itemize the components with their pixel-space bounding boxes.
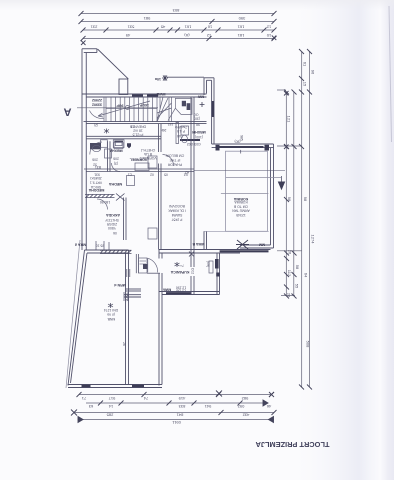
terrace bottom line	[204, 230, 269, 232]
svg-text:112: 112	[287, 270, 292, 277]
svg-text:285: 285	[106, 413, 113, 418]
svg-text:(100): (100)	[195, 135, 203, 139]
door jamb block	[139, 258, 147, 273]
wall top-left edge	[82, 48, 97, 50]
shield symbol kitchen	[127, 143, 131, 148]
svg-text:161: 161	[184, 25, 191, 30]
svg-text:985: 985	[240, 135, 244, 141]
dim line T1	[81, 13, 274, 15]
svg-text:55: 55	[295, 284, 300, 289]
svg-text:CM TO B: CM TO B	[233, 204, 248, 208]
lintel hatch	[86, 194, 125, 201]
svg-text:803: 803	[172, 8, 179, 13]
window bath east vertical	[215, 259, 219, 269]
svg-text:16UP: 16UP	[139, 103, 149, 107]
stair landing line	[106, 108, 157, 110]
stair treads	[110, 97, 112, 122]
svg-text:AKKIDA: AKKIDA	[106, 213, 120, 217]
dim line R4	[293, 92, 295, 296]
wc2 fixture	[181, 126, 189, 135]
door jamb dark mark	[143, 264, 148, 269]
svg-text:64: 64	[304, 273, 309, 278]
svg-text:26h: 26h	[161, 128, 167, 132]
svg-text:(09): (09)	[206, 261, 210, 267]
svg-text:161: 161	[237, 25, 244, 30]
wall kitchen right	[158, 124, 160, 152]
svg-text:206: 206	[92, 158, 98, 162]
svg-text:917: 917	[108, 396, 115, 401]
stair walk line	[98, 101, 150, 117]
svg-text:45: 45	[160, 25, 165, 30]
star garage label	[108, 303, 113, 308]
svg-text:390: 390	[238, 16, 245, 21]
section marker A left	[64, 106, 159, 118]
wc ne fixtures dark	[182, 101, 186, 107]
wall garage top	[85, 249, 129, 251]
svg-text:CHETH-J: CHETH-J	[140, 148, 155, 152]
svg-text:52: 52	[93, 163, 97, 167]
svg-text:SAMNI: SAMNI	[172, 213, 183, 217]
window bottom wall 1	[82, 385, 91, 387]
svg-text:(30): (30)	[194, 117, 200, 121]
wall left (double)	[81, 49, 83, 250]
window sill inner room	[180, 139, 200, 141]
svg-text:I DL KIMAK: I DL KIMAK	[167, 209, 185, 213]
svg-text:pi na: pi na	[107, 313, 114, 317]
svg-text:12345: 12345	[236, 213, 246, 217]
svg-text:B UA: B UA	[143, 152, 152, 156]
svg-text:16: 16	[207, 25, 212, 30]
dim line B2	[86, 402, 267, 404]
svg-text:MMA B: MMA B	[192, 242, 204, 246]
wall center vertical	[190, 97, 192, 268]
X void symbol	[236, 240, 249, 249]
svg-text:P 2457: P 2457	[172, 218, 183, 222]
svg-text:231: 231	[90, 25, 97, 30]
svg-text:A: A	[64, 106, 72, 118]
wall terrace-south stub	[203, 231, 205, 249]
svg-text:C2: C2	[131, 124, 135, 128]
svg-text:MEDHA: MEDHA	[109, 182, 123, 186]
svg-text:58: 58	[295, 265, 300, 270]
wall wc right	[107, 141, 109, 171]
svg-text:49: 49	[125, 33, 130, 38]
hall niche wall	[135, 254, 137, 273]
wall NE top	[204, 77, 214, 79]
svg-text:PHAZOR: PHAZOR	[167, 163, 182, 167]
wall middle wing horizontal (double)	[84, 168, 194, 170]
svg-text:06: 06	[113, 231, 117, 235]
svg-text:G2: G2	[184, 172, 189, 176]
svg-text:MW: MW	[197, 95, 204, 99]
window north wall sill 1	[132, 95, 143, 97]
site boundary thin line	[66, 240, 80, 388]
svg-text:33902: 33902	[92, 103, 102, 107]
tick marks of top dims	[79, 11, 277, 45]
star kitchen top	[104, 129, 109, 134]
counter dark bits	[114, 141, 123, 142]
svg-text:BOGOVNI: BOGOVNI	[169, 204, 185, 208]
terrace outline	[226, 151, 268, 231]
svg-text:MWk: MWk	[163, 288, 171, 292]
svg-text:63: 63	[88, 404, 93, 409]
svg-text:OC: OC	[193, 113, 199, 117]
ext line south wing	[277, 250, 302, 252]
kitchen counter rects	[101, 140, 108, 148]
svg-text:7+: 7+	[180, 263, 184, 267]
svg-text:C02: C02	[191, 268, 195, 274]
wall hall step	[126, 288, 142, 290]
svg-text:092: 092	[237, 404, 244, 409]
svg-text:MRN d: MRN d	[114, 283, 125, 287]
wall below stairs (double)	[84, 122, 207, 124]
svg-text:MRA d: MRA d	[75, 243, 86, 247]
ext line wing bottom	[281, 295, 295, 297]
svg-text:05: 05	[164, 172, 168, 176]
svg-text:G03: G03	[194, 142, 201, 146]
shower box	[148, 156, 157, 168]
wall east upper	[213, 78, 215, 144]
wall kitchen divider (double)	[86, 135, 161, 137]
lintel X mark	[116, 194, 125, 201]
svg-text:CM BELOW: CM BELOW	[165, 154, 184, 158]
svg-text:26: 26	[287, 293, 292, 298]
dim line T2	[81, 21, 274, 23]
svg-text:C1: C1	[128, 172, 132, 176]
star bath label	[175, 262, 180, 267]
svg-text:ZIDSR: ZIDSR	[106, 222, 117, 226]
svg-text:ARMU TAN: ARMU TAN	[232, 209, 250, 213]
window living south (dark sill)	[220, 250, 269, 252]
hall under-door line	[147, 272, 160, 274]
svg-text:26: 26	[122, 342, 126, 346]
svg-text:10: 10	[266, 33, 271, 38]
svg-text:508: 508	[306, 341, 311, 348]
window east upper dark	[212, 101, 214, 117]
svg-text:12: 12	[206, 33, 211, 38]
svg-text:981: 981	[143, 16, 150, 21]
svg-text:TLOCRT PRIZEMLJA: TLOCRT PRIZEMLJA	[255, 440, 330, 449]
wall garage west slant	[68, 250, 85, 386]
window south wing	[166, 292, 192, 294]
stair wall left	[103, 97, 105, 122]
svg-text:152: 152	[168, 122, 174, 126]
top dim labels (upside down)	[90, 8, 271, 38]
svg-text:0911: 0911	[171, 420, 180, 425]
window bottom wall 2	[132, 385, 144, 387]
svg-text:96: 96	[311, 70, 316, 75]
fixture middle	[127, 176, 135, 186]
svg-text:61: 61	[303, 62, 308, 67]
door arc wc	[90, 142, 102, 155]
top edge light tint	[0, 0, 394, 10]
svg-text:833: 833	[178, 404, 185, 409]
window living top (dark sill)	[220, 146, 264, 148]
wall bath east	[216, 253, 218, 295]
svg-text:MNB.: MNB.	[107, 317, 116, 321]
wall garage east	[125, 253, 127, 385]
fixture top small	[105, 149, 112, 158]
wall hall east / bath west	[158, 250, 160, 259]
fixture hall	[148, 228, 157, 239]
svg-text:MEDDHA: MEDDHA	[88, 188, 104, 192]
inset room NE	[168, 98, 192, 120]
svg-text:206: 206	[113, 157, 119, 161]
wall south of living (double)	[159, 249, 271, 251]
dim line T4	[83, 38, 274, 40]
garage top mini ticks	[96, 241, 130, 301]
dim line T3	[83, 29, 274, 31]
svg-text:TA6: TA6	[177, 134, 183, 138]
washing machine	[114, 143, 123, 149]
door arc store room	[163, 155, 174, 166]
plus symbol upper	[200, 102, 205, 107]
door arc middle wing	[112, 163, 121, 172]
wall east main	[273, 144, 275, 248]
stair wall right	[168, 97, 170, 122]
dim line B3	[74, 412, 274, 414]
svg-text:MM: MM	[259, 243, 265, 247]
svg-text:P 4.5: P 4.5	[177, 129, 185, 133]
svg-text:IF THE: IF THE	[169, 158, 180, 162]
dim line R3	[285, 92, 287, 296]
wall NE jog	[203, 78, 205, 95]
dim line R1	[301, 52, 303, 388]
svg-text:MWB: MWB	[156, 92, 165, 96]
svg-text:VRT 9.1: VRT 9.1	[90, 181, 102, 185]
wall living room top	[212, 143, 274, 145]
svg-text:181: 181	[237, 33, 244, 38]
X mark bath wall top	[189, 252, 194, 257]
svg-text:(3): (3)	[114, 162, 118, 166]
svg-text:531: 531	[127, 25, 134, 30]
svg-text:26 10: 26 10	[96, 244, 105, 248]
section marker A right	[279, 176, 285, 189]
fixture right room	[209, 261, 213, 273]
svg-text:MBXHA: MBXHA	[109, 149, 123, 153]
garage door hatch	[100, 250, 132, 253]
svg-text:VORNBEL: VORNBEL	[129, 157, 147, 161]
svg-text:98: 98	[287, 197, 292, 202]
wall lintel	[85, 194, 115, 196]
chimney	[119, 79, 128, 95]
svg-text:180 90: 180 90	[100, 200, 110, 204]
svg-text:9UP: 9UP	[116, 104, 124, 108]
svg-text:SHLTZIY: SHLTZIY	[104, 218, 118, 222]
svg-text:L2 DB: L2 DB	[176, 289, 186, 293]
svg-text:841: 841	[176, 413, 183, 418]
svg-text:15: 15	[303, 82, 308, 87]
wall small wc vertical	[176, 123, 179, 144]
svg-text:14: 14	[108, 404, 113, 409]
svg-text:1274: 1274	[311, 235, 316, 245]
svg-text:121: 121	[287, 116, 292, 123]
right dim labels (rotated)	[287, 62, 316, 348]
svg-text:G02: G02	[187, 142, 194, 146]
svg-text:931: 931	[94, 172, 100, 176]
stair winders	[157, 97, 163, 122]
door arc under lintel	[97, 199, 108, 210]
right page-edge gradient band	[290, 0, 394, 480]
wc basin dark	[90, 143, 101, 149]
svg-text:KUPANICA: KUPANICA	[170, 270, 189, 274]
svg-text:419: 419	[178, 396, 185, 401]
site diagonal line	[98, 49, 129, 79]
wc2 bowl	[182, 135, 188, 143]
dim line R2	[308, 52, 310, 388]
kitchen table rect	[135, 163, 149, 171]
window north wall sill 2	[147, 95, 158, 97]
bottom dim labels (upside down, below lines)	[81, 396, 271, 425]
wc bowl	[92, 145, 100, 151]
ext line to R3	[277, 89, 286, 91]
wall north wing top (double)	[82, 93, 207, 95]
svg-text:MBXHM: MBXHM	[192, 130, 206, 134]
wall bottom (double)	[68, 384, 162, 386]
dim line B1	[79, 394, 272, 396]
corner X marks	[81, 41, 86, 46]
dim line B4	[78, 419, 274, 421]
wall south of bath rooms	[159, 291, 220, 293]
living interior line 1 (section)	[226, 177, 281, 179]
svg-text:98: 98	[303, 197, 308, 202]
page edge curve line	[389, 6, 392, 142]
svg-text:74: 74	[143, 396, 148, 401]
svg-text:982: 982	[241, 396, 248, 401]
door arc left room	[90, 111, 104, 119]
leader line right of wall	[194, 170, 285, 172]
svg-text:KOBIMA: KOBIMA	[233, 197, 248, 201]
svg-text:12: 12	[266, 25, 271, 30]
living interior line 2	[221, 192, 269, 194]
svg-text:DNI 1274: DNI 1274	[104, 308, 118, 312]
svg-text:10a: 10a	[154, 77, 161, 81]
wall living room bottom-right	[240, 247, 274, 249]
svg-text:Y800: Y800	[108, 226, 116, 230]
svg-text:941: 941	[204, 404, 211, 409]
svg-text:(A): (A)	[184, 33, 190, 38]
svg-text:7scMHz: 7scMHz	[175, 125, 188, 129]
svg-text:22902: 22902	[92, 98, 102, 102]
svg-text:71: 71	[81, 396, 86, 401]
svg-text:P=21.5: P=21.5	[132, 133, 143, 137]
north arrow symbol	[162, 75, 168, 81]
door arc hall	[148, 258, 158, 272]
door leaf hall	[147, 258, 149, 272]
svg-text:02: 02	[150, 172, 154, 176]
svg-text:432: 432	[242, 413, 249, 418]
svg-text:26: 26	[288, 250, 293, 255]
svg-text:(2): (2)	[94, 123, 98, 127]
svg-text:46: 46	[266, 404, 271, 409]
svg-text:98: 98	[196, 123, 200, 127]
wall hall west vertical	[123, 198, 125, 241]
ext line living corner	[277, 145, 302, 147]
